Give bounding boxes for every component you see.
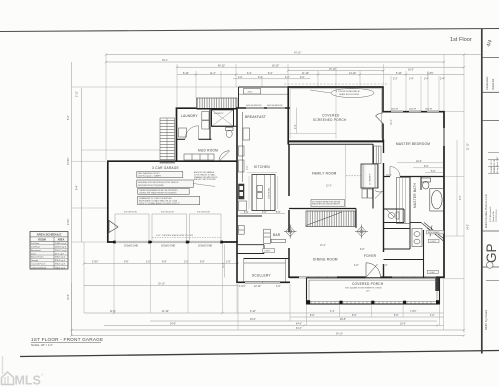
foyer chandelier column right: [355, 225, 368, 239]
svg-text:11'-10": 11'-10": [162, 311, 169, 313]
svg-text:BENCHMARK: BENCHMARK: [428, 231, 440, 234]
fireplace media wall: [361, 164, 378, 188]
svg-text:9'x8' OH DOOR: 9'x8' OH DOOR: [197, 212, 210, 214]
wall: master right exterior: [443, 111, 445, 278]
svg-text:TWO SQUARE STONE VENEER FLOORI: TWO SQUARE STONE VENEER FLOORING: [345, 286, 382, 289]
svg-text:GUARANTEE TO COMPLY W/ APPLIED: GUARANTEE TO COMPLY W/ APPLIED: [139, 197, 172, 200]
svg-text:26'-8": 26'-8": [340, 319, 346, 321]
dim text top row2: [218, 65, 414, 71]
title block info row labels: [490, 157, 499, 173]
svg-text:94'-10": 94'-10": [336, 334, 343, 336]
wall: garage left: [107, 161, 109, 243]
svg-text:12'-0": 12'-0": [416, 161, 422, 163]
svg-text:8'-0": 8'-0": [424, 166, 429, 168]
deck: top stair hatch: [197, 98, 238, 109]
svg-text:2nd Floor: 2nd Floor: [31, 247, 40, 249]
svg-text:39'-4": 39'-4": [162, 60, 168, 62]
stair: exterior side stair hatch: [160, 118, 175, 163]
svg-text:SCREENED PORCH: SCREENED PORCH: [313, 118, 347, 122]
svg-text:MUD ROOM: MUD ROOM: [198, 149, 218, 153]
kitchen dim row: [240, 212, 285, 214]
svg-text:3'-4": 3'-4": [409, 79, 414, 81]
dim line bottom y330: [72, 329, 465, 331]
svg-text:3'-0": 3'-0": [262, 212, 267, 214]
dim line bottom y317: [290, 316, 444, 318]
svg-text:11'-2": 11'-2": [210, 73, 216, 75]
svg-text:DRAWN BY: JA: DRAWN BY: JA: [493, 159, 496, 173]
kitchen range wall cab: [243, 128, 250, 140]
svg-text:2'-10": 2'-10": [77, 91, 79, 97]
wall: screened porch left: [287, 87, 289, 145]
svg-text:11'-10": 11'-10": [302, 73, 309, 75]
wall: laundry/elevator top: [197, 108, 238, 110]
svg-text:25'-10": 25'-10": [329, 69, 336, 71]
svg-text:LIGHT: LIGHT: [431, 241, 437, 243]
hall door arc lower: [375, 191, 383, 199]
svg-text:16'-0": 16'-0": [408, 70, 414, 72]
wall: master bedroom top with windows: [383, 111, 445, 113]
svg-text:3 CAR GARAGE: 3 CAR GARAGE: [152, 166, 179, 170]
master top windows: [391, 111, 439, 113]
scullery counters: [244, 259, 286, 283]
dim line top row1: [106, 61, 444, 63]
bar counter: [271, 239, 285, 242]
dim texts bottom y317: [310, 315, 435, 317]
svg-text:FAMILY ROOM: FAMILY ROOM: [312, 172, 337, 176]
svg-text:8'-10": 8'-10": [183, 73, 189, 75]
svg-text:2'-0": 2'-0": [146, 262, 151, 264]
svg-text:2'-0": 2'-0": [238, 77, 243, 79]
washer dryer: [202, 112, 209, 130]
kitchen island dim lines: [247, 173, 278, 209]
dim line top row5: [233, 78, 310, 80]
title block divider: [482, 91, 499, 93]
svg-text:KITCHEN: KITCHEN: [254, 165, 270, 169]
family room note box: [311, 200, 345, 207]
garage bay door labels: [124, 212, 210, 214]
dim texts bottom y313: [110, 309, 417, 313]
svg-text:14'-2": 14'-2": [468, 224, 470, 230]
svg-text:2436.4 sq ft: 2436.4 sq ft: [55, 242, 67, 245]
svg-text:10'-2": 10'-2": [223, 262, 225, 268]
svg-text:2'-4": 2'-4": [440, 79, 445, 81]
wall: screened porch top: [288, 86, 384, 88]
dim line bottom garage row: [84, 263, 238, 265]
dim line top row2: [177, 66, 464, 68]
bath door arc: [390, 167, 400, 177]
svg-text:LAUNDRY: LAUNDRY: [181, 114, 199, 118]
svg-text:1ST FLOOR - FRONT GARAGE: 1ST FLOOR - FRONT GARAGE: [31, 337, 103, 342]
title block info rows: [488, 153, 499, 174]
svg-text:Covered Porch: Covered Porch: [31, 264, 46, 266]
svg-text:2650 SH: 2650 SH: [391, 109, 399, 111]
svg-text:3'-0": 3'-0": [247, 165, 249, 170]
svg-text:16'-10": 16'-10": [272, 65, 279, 67]
garage door jamb posts: [113, 241, 223, 244]
svg-text:386.6 sq ft: 386.6 sq ft: [55, 263, 65, 266]
wall: closet bottom right: [384, 259, 424, 261]
page border bottom: [20, 351, 499, 357]
svg-text:4050 SH WINDOW: 4050 SH WINDOW: [267, 105, 283, 107]
svg-text:24'-8": 24'-8": [170, 324, 176, 326]
dim ticks bottom: [70, 262, 465, 336]
svg-text:16'0x8'0 OHD: 16'0x8'0 OHD: [161, 245, 175, 247]
extension lines right: [444, 112, 464, 279]
wall: laundry top: [176, 107, 197, 109]
laundry sink: [179, 128, 187, 137]
svg-text:42" LINEAR FP: 42" LINEAR FP: [369, 172, 372, 185]
svg-text:8'-4": 8'-4": [77, 185, 79, 190]
svg-text:5640 Ivy Road: 5640 Ivy Road: [484, 310, 488, 330]
svg-text:3'-4": 3'-4": [424, 79, 429, 81]
svg-text:5'-10": 5'-10": [396, 73, 402, 75]
svg-text:SCULLERY: SCULLERY: [252, 274, 271, 278]
wall: butler hall south: [237, 244, 264, 246]
svg-text:36x90 ISLAND: 36x90 ISLAND: [267, 187, 270, 199]
dim texts top row5: [238, 77, 305, 79]
svg-text:16'-0": 16'-0": [320, 245, 326, 247]
master vanity: [412, 229, 422, 247]
title block divider: [482, 230, 499, 232]
extension drops bottom: [72, 279, 444, 336]
svg-text:SPACE BELOW CEILING HEIGHT: SPACE BELOW CEILING HEIGHT: [312, 203, 341, 206]
wall: stairs right / foyer left: [355, 209, 357, 229]
svg-text:46.1 sq ft: 46.1 sq ft: [55, 252, 64, 255]
master bath tub: [430, 189, 444, 212]
dim ticks top: [105, 61, 465, 76]
svg-text:16'0x8'0 OHD: 16'0x8'0 OHD: [198, 245, 212, 247]
extension drops garage doors: [84, 242, 237, 313]
wall: scullery front: [236, 281, 290, 283]
wic light box lower: [427, 270, 438, 274]
master bath shower corner: [421, 223, 444, 242]
porch balusters: [311, 302, 431, 304]
wall: laundry/mud divider: [177, 138, 212, 140]
svg-text:4'-0½": 4'-0½": [239, 284, 246, 288]
svg-text:7'-6½": 7'-6½": [410, 309, 417, 313]
svg-text:94'-10": 94'-10": [294, 53, 301, 55]
powder toilet foyer: [386, 209, 399, 219]
kitchen lower cabinets: [239, 201, 247, 211]
scullery window: [245, 282, 280, 284]
svg-text:Construction: Construction: [486, 76, 489, 90]
bar tall cabinet: [264, 229, 271, 243]
svg-text:24'0": 24'0": [366, 290, 370, 292]
svg-text:GP: GP: [484, 243, 499, 263]
hall wall above scullery: [237, 215, 262, 217]
wall: porch bottom / family top: [288, 140, 384, 142]
dim texts right rotated: [460, 143, 470, 230]
dim line bottom y321: [150, 320, 437, 322]
dim texts above master windows: [393, 79, 445, 81]
wall: bath/tub divider: [420, 177, 422, 191]
svg-text:1st Floor: 1st Floor: [31, 242, 40, 245]
svg-text:LIGHT: LIGHT: [430, 272, 436, 274]
area schedule table: [30, 232, 68, 270]
svg-text:Basement: Basement: [31, 249, 41, 252]
svg-text:COVERED PORCH: COVERED PORCH: [352, 282, 384, 286]
kitchen range: [239, 184, 245, 199]
wall: family room top inner: [288, 143, 373, 145]
dim line garage row2: [84, 285, 238, 287]
svg-text:9'-8": 9'-8": [124, 262, 129, 264]
porch interior dim line: [290, 108, 337, 134]
garage bay outlines: [115, 214, 221, 241]
powder toilet: [226, 128, 234, 138]
svg-text:MLS: MLS: [15, 374, 41, 387]
svg-text:MASTER BEDROOM: MASTER BEDROOM: [396, 142, 430, 146]
wall: stairs top: [289, 208, 356, 210]
svg-text:Decatur GA: Decatur GA: [492, 211, 495, 222]
powder room below elevator: [212, 125, 238, 127]
wall: master bath top: [384, 176, 445, 178]
svg-text:40'-10": 40'-10": [218, 65, 225, 67]
wall: laundry left: [176, 108, 178, 162]
svg-text:AND HB 7 SECTION R309: AND HB 7 SECTION R309: [194, 178, 216, 181]
svg-text:2650 SH: 2650 SH: [425, 109, 433, 111]
title block divider short: [486, 280, 499, 282]
svg-text:ELEVATOR: ELEVATOR: [214, 112, 224, 115]
svg-text:9'x8' OH DOOR: 9'x8' OH DOOR: [124, 212, 137, 214]
wall: laundry right: [209, 109, 211, 140]
garage note leader: [193, 184, 215, 187]
dim line bottom y313: [84, 312, 444, 314]
svg-text:9'-8": 9'-8": [200, 262, 205, 264]
svg-text:AREA: AREA: [58, 238, 65, 241]
svg-text:DINING ROOM: DINING ROOM: [313, 258, 338, 262]
svg-text:836.8 sq ft: 836.8 sq ft: [55, 259, 65, 262]
svg-text:16'0x8'0 OHD: 16'0x8'0 OHD: [124, 245, 138, 247]
svg-text:1st Floor: 1st Floor: [450, 37, 472, 43]
grill box: [244, 89, 261, 95]
garage note box 1: [137, 172, 183, 178]
wall: butler hall east: [263, 245, 265, 254]
garage note box 2: [137, 180, 194, 187]
dim text row below scullery: [239, 284, 281, 288]
wall: garage front with door openings: [107, 241, 238, 243]
master interior dim rows: [386, 161, 444, 177]
kitchen island: [252, 175, 275, 211]
wall: family/hall divider: [372, 144, 374, 209]
window dims master top: [391, 109, 433, 111]
svg-text:220V Receptacle + 50AMPS: 220V Receptacle + 50AMPS: [138, 175, 162, 178]
svg-text:4-1/2" CONCRETE SLAB SLOPED TO: 4-1/2" CONCRETE SLAB SLOPED TO DOOR: [156, 234, 194, 237]
kitchen counter left: [242, 112, 244, 182]
dining column symbol left: [284, 225, 297, 239]
tv niche dashed: [346, 175, 361, 177]
wall: kitchen/dining spine: [288, 144, 290, 278]
svg-text:14'-10": 14'-10": [349, 73, 356, 75]
garage angled wall symbol: [109, 221, 118, 233]
svg-text:MASTER BATH: MASTER BATH: [413, 182, 417, 208]
dim texts bottom y321: [250, 319, 346, 321]
svg-text:8'-0": 8'-0": [394, 315, 399, 317]
svg-text:6'-4": 6'-4": [247, 73, 252, 75]
butler cabinets on left wall: [238, 226, 244, 235]
svg-text:BAR: BAR: [273, 233, 281, 237]
svg-text:LIGHT: LIGHT: [265, 251, 271, 253]
svg-text:4'-4": 4'-4": [330, 311, 335, 313]
wic light box upper: [428, 239, 439, 243]
garage note box 4: [138, 196, 200, 205]
svg-text:9'x8' OH DOOR: 9'x8' OH DOOR: [161, 212, 174, 214]
svg-text:DESIGNED FOR USE WITH ELECTRIC: DESIGNED FOR USE WITH ELECTRIC VEHICLE: [138, 182, 179, 184]
svg-text:4' CONCRETE WALKWAY AT: 4' CONCRETE WALKWAY AT: [336, 90, 361, 93]
wall: garage top / mudroom bottom: [107, 160, 238, 162]
FMLS watermark: [2, 356, 45, 387]
garage slab note: [152, 234, 221, 238]
kitchen wall cab2: [239, 146, 245, 156]
garage door opening sills: [115, 241, 221, 243]
svg-text:13'-6¼": 13'-6¼": [67, 157, 70, 165]
scullery top wall: [244, 258, 290, 260]
wall: foyer right spine: [383, 140, 385, 279]
garage side note: [194, 171, 218, 181]
svg-text:Permit Set: Permit Set: [492, 79, 495, 90]
title block divider: [482, 57, 499, 59]
svg-text:6'-10": 6'-10": [250, 311, 256, 313]
svg-text:9'-8": 9'-8": [162, 262, 167, 264]
cabinets below fireplace: [362, 189, 373, 198]
svg-text:6'-4": 6'-4": [295, 124, 297, 129]
svg-text:4'-0": 4'-0": [276, 286, 281, 288]
kitchen wall cab3: [239, 160, 245, 172]
master closet hatch: [397, 178, 411, 224]
mudroom-garage door: [219, 151, 230, 162]
title block divider: [482, 120, 499, 122]
porch screen inner lines: [290, 89, 382, 139]
covered porch outline: [307, 278, 440, 304]
svg-text:8'-0": 8'-0": [352, 315, 357, 317]
elevator box: [212, 110, 234, 127]
svg-text:4'-0": 4'-0": [430, 315, 435, 317]
wall: breakfast top with windows: [236, 107, 290, 109]
wall: bath lower divider: [410, 222, 421, 224]
dim line bottom y325.5: [104, 325, 444, 327]
garage door labels below wall: [124, 245, 212, 247]
svg-text:9'-8¼": 9'-8¼": [67, 218, 70, 225]
svg-text:4'-0": 4'-0": [383, 265, 388, 267]
svg-text:16'-0": 16'-0": [391, 119, 393, 125]
wall: front (south) with openings: [290, 276, 445, 278]
svg-text:5'-6": 5'-6": [244, 212, 249, 214]
svg-text:8'-4": 8'-4": [268, 73, 273, 75]
svg-text:8'-0": 8'-0": [310, 315, 315, 317]
svg-text:4'-0": 4'-0": [354, 265, 359, 267]
svg-text:84'-6": 84'-6": [296, 328, 302, 330]
laundry door arc: [185, 126, 199, 140]
dim line bottom y335.5: [72, 335, 465, 337]
svg-text:9'-0": 9'-0": [460, 195, 462, 200]
svg-text:39'-10": 39'-10": [158, 284, 165, 286]
wall: scullery left / garage right spine: [236, 108, 238, 283]
room label: COVERED SCREENED PORCH: [313, 114, 347, 122]
svg-text:Garage: Garage: [31, 260, 39, 262]
breakfast windows: [246, 107, 285, 109]
hall closet shelves: [374, 146, 381, 164]
dim line left vertical x71: [71, 62, 73, 336]
drawing title: 1ST FLOOR - FRONT GARAGE: [31, 337, 103, 347]
svg-text:3115 Mountain Dr: 3115 Mountain Dr: [489, 206, 492, 222]
svg-text:4050 SH WINDOW: 4050 SH WINDOW: [246, 105, 262, 107]
svg-text:2'-9½": 2'-9½": [92, 260, 99, 264]
svg-text:770-555-0114: 770-555-0114: [496, 209, 498, 222]
svg-text:DURING THE TRADE PERMIT PROCES: DURING THE TRADE PERMIT PROCESSING: [139, 192, 177, 195]
svg-text:9'-2": 9'-2": [300, 77, 305, 79]
wall: scullery upper: [237, 253, 264, 255]
svg-text:15'-0": 15'-0": [386, 175, 392, 177]
title block divider vertical: [481, 29, 483, 354]
dim texts top row4: [183, 71, 434, 75]
room label: COVERED PORCH: [345, 282, 384, 292]
svg-text:1185.8 sq ft: 1185.8 sq ft: [55, 246, 66, 249]
svg-text:5'-2": 5'-2": [393, 79, 398, 81]
title block sheet circle: [487, 262, 494, 269]
scullery light box: [263, 249, 275, 253]
page border top: [0, 29, 499, 32]
svg-text:16'-0": 16'-0": [250, 319, 256, 321]
stairs: main stair hatch: [306, 211, 355, 227]
svg-text:2650 SH: 2650 SH: [409, 109, 417, 111]
extension drops from top dims: [106, 55, 464, 334]
svg-text:4'-2": 4'-2": [285, 77, 290, 79]
porch-hall door leaf: [376, 113, 384, 124]
porch centerline: [335, 88, 337, 139]
svg-text:21'-10": 21'-10": [468, 143, 470, 150]
grilling deck walls: [239, 87, 289, 108]
porch right chimney column: [435, 279, 439, 292]
svg-text:5'-0": 5'-0": [431, 171, 436, 173]
svg-text:2'-9": 2'-9": [226, 262, 231, 264]
powder room right of foyer: [384, 209, 405, 223]
driveway side dim: [223, 245, 225, 278]
title block firm address: [489, 206, 498, 222]
svg-text:5'-5": 5'-5": [276, 212, 281, 214]
svg-text:Bonus Room: Bonus Room: [31, 257, 44, 259]
svg-text:GRADE BROOM FINISH: GRADE BROOM FINISH: [339, 93, 360, 96]
svg-text:SCALE: 1/8"=1': SCALE: 1/8"=1': [490, 159, 493, 173]
wall: wic left: [423, 230, 425, 278]
svg-text:BREAKFAST: BREAKFAST: [245, 115, 266, 119]
title block divider: [482, 266, 499, 268]
svg-text:FOYER: FOYER: [364, 254, 377, 258]
svg-text:ANCHORAGE COLBALT SHALL BE 1/2: ANCHORAGE COLBALT SHALL BE 1/2" 20GA: [139, 200, 178, 203]
svg-text:10'-0": 10'-0": [400, 324, 406, 326]
svg-text:6'-0": 6'-0": [360, 249, 365, 251]
svg-text:SCALE: 1/8" = 1'-0": SCALE: 1/8" = 1'-0": [31, 344, 53, 347]
svg-text:22'-0": 22'-0": [326, 186, 332, 188]
dim line top row0 overall: [105, 53, 482, 56]
svg-text:786.4 sq ft: 786.4 sq ft: [55, 266, 65, 269]
wall: screened porch right: [382, 87, 384, 142]
extension lines left: [72, 87, 240, 242]
svg-text:ROOM: ROOM: [38, 238, 45, 241]
svg-text:GRILL: GRILL: [248, 92, 253, 94]
porch columns: [307, 300, 440, 304]
roof overhang dashed: [284, 83, 388, 85]
svg-text:64'-6": 64'-6": [296, 324, 302, 326]
svg-text:8'-2": 8'-2": [68, 115, 70, 120]
dim line top row3 porch: [288, 70, 384, 72]
svg-text:®: ®: [41, 373, 44, 377]
window labels breakfast: [246, 105, 283, 107]
dim line top row4: [177, 74, 464, 76]
family room ceiling line: [345, 145, 347, 209]
svg-text:4/4: 4/4: [486, 39, 494, 48]
foyer small dims: [354, 249, 388, 267]
closet walls right of foyer: [384, 177, 411, 250]
porch walkway callout: [310, 88, 374, 97]
